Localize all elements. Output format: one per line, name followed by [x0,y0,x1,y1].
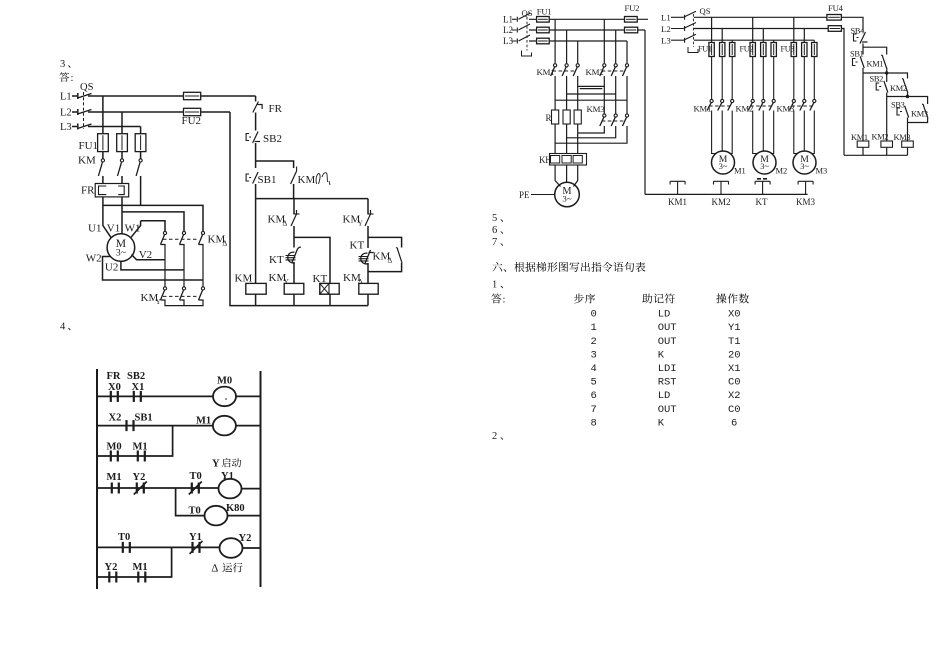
fuse FU4b (L2 return) [828,26,841,32]
wire L2 row [694,28,828,30]
svg-text:K80: K80 [226,503,245,514]
wire return line [841,29,844,156]
ladder right rail [260,371,262,587]
svg-text:∆: ∆ [283,219,288,228]
fuse FU2 (L1) [184,92,201,99]
wire KM coil branch [255,199,257,284]
label question 3 [60,59,70,70]
svg-text:KM3: KM3 [796,197,816,207]
node L2 [60,108,78,119]
label question 5-2 list [492,225,503,236]
node L3 [503,36,517,46]
wire rejoin + junction [863,68,887,141]
svg-text:LD: LD [658,309,671,321]
contactor KM-Y contacts [161,287,205,300]
svg-text:FU2: FU2 [625,3,640,13]
motor M2 [753,151,787,176]
svg-text:T0: T0 [118,532,130,543]
svg-text:FU3: FU3 [781,45,795,54]
svg-text:T0: T0 [190,471,202,482]
svg-text:M1: M1 [196,416,211,427]
fuse FU2 (L2) [182,108,202,127]
svg-text:6: 6 [731,417,737,429]
svg-text:∆: ∆ [212,563,219,575]
svg-text:3~: 3~ [760,162,769,171]
svg-text:L2: L2 [503,25,513,35]
svg-text:K: K [658,417,665,429]
svg-text:3~: 3~ [116,248,127,259]
svg-text:7: 7 [591,404,597,416]
wire W1 slant [131,221,141,238]
node V1 [107,223,120,235]
contact KM-delta seal (NO) [373,248,403,265]
node L2 [503,25,517,35]
svg-text:OUT: OUT [658,336,677,348]
svg-text:KM1: KM1 [867,60,884,69]
wire to motor M2 [753,111,774,154]
wire L3 row [88,126,141,128]
svg-text:LDI: LDI [658,363,677,375]
svg-text:KT: KT [350,240,365,252]
contact X2 (SB1) [109,413,153,432]
wire [293,199,295,248]
contact KM2 seal (NO) [890,79,908,93]
fuse FU2 (L1) [625,3,640,22]
svg-text:FU4: FU4 [828,3,844,13]
node V2 wire [132,249,166,261]
svg-text:2: 2 [492,431,497,442]
svg-text:Y: Y [156,297,162,306]
node L2 [661,24,685,34]
wire FU1 to KM [103,152,141,159]
rung 2 wire [97,425,213,427]
svg-text:SB1: SB1 [135,413,153,424]
svg-text:Y1: Y1 [189,532,202,543]
branch wire to T0 coil [176,488,205,516]
svg-text:X2: X2 [728,390,741,402]
switch QS [684,6,711,53]
fuse FU1 (3) [537,7,552,44]
heading section six [492,262,645,272]
node L3 [661,36,685,46]
svg-text:L1: L1 [60,92,72,103]
wire stage3 branch [908,97,928,105]
motor M 3~ (PE) [555,182,580,207]
svg-text:QS: QS [80,82,94,93]
wire KM2 outputs down [604,76,627,114]
svg-text:U2: U2 [105,262,118,274]
svg-text:Y2: Y2 [105,562,118,573]
svg-text:KM2: KM2 [586,67,604,77]
svg-text:M3: M3 [816,166,828,176]
svg-text:KM: KM [235,273,253,285]
svg-text:∆: ∆ [388,256,393,265]
wire SB4 to branch [863,44,887,55]
svg-text:5: 5 [591,377,597,389]
fuse FU1 group [698,43,735,57]
contactor KM3 contacts [587,104,629,126]
wire KM-Y shorting bar [161,300,204,306]
label Y qidong [212,458,241,469]
coil Y1 [219,471,242,498]
svg-text:3: 3 [60,59,65,70]
svg-text:SB1: SB1 [850,50,864,59]
fuse FU2 group [740,43,777,57]
wire L1 row [529,18,648,20]
motor M 3~ [107,234,135,262]
svg-text:M1: M1 [133,562,148,573]
wire stage3 join [908,118,928,142]
svg-text:U1: U1 [88,223,101,235]
svg-text:3: 3 [591,349,597,361]
fuse FU4 [827,3,844,20]
contact X0 (FR) [107,371,121,402]
wire L1 row [88,95,256,97]
svg-text:Y: Y [358,219,364,228]
contact M1 [133,442,148,462]
svg-text:3~: 3~ [719,162,728,171]
table row step 0 [591,309,741,321]
pushbutton SB2 (NC stop) [246,132,282,146]
rung 4 parallel branch wire [97,547,172,577]
svg-text:RST: RST [658,377,677,389]
svg-text:KM1: KM1 [668,197,687,207]
node L1 [661,13,685,23]
wire FR to SB2 [255,113,257,131]
node L3 [60,122,78,133]
wire L1 to control [255,96,257,102]
label delta yunxing [212,563,243,575]
wire phase drops to FU1 [103,96,141,134]
wire crossover bar 3 [555,99,627,101]
contact T0 [118,532,130,553]
terminal KM1 [668,181,687,207]
svg-text:FU1: FU1 [537,7,552,17]
svg-text:6: 6 [591,390,597,402]
svg-text:KT: KT [756,197,768,207]
table row step 3 [591,349,741,361]
svg-text:1: 1 [591,322,597,334]
svg-text:T0: T0 [189,506,201,517]
rung 1 wire to rail [236,395,261,397]
fuse FU2 (L2) [625,27,638,33]
time contact KT (NC delayed-open) [350,240,374,264]
svg-text:KM: KM [298,174,316,186]
wire right branch [368,199,402,248]
contactor KM2 contacts [586,64,629,77]
svg-text:OUT: OUT [658,404,677,416]
wire drops to KM2 [604,19,627,63]
svg-text:FR: FR [269,103,283,115]
svg-text:KM2: KM2 [890,84,907,93]
wire to KMY coil [293,262,295,283]
terminal KM2 [712,181,731,207]
wire L2 row [529,29,645,31]
svg-text:20: 20 [728,349,741,361]
fuse FU3 group [781,43,818,57]
svg-text:∆: ∆ [223,239,228,248]
svg-text:KM3: KM3 [777,104,795,114]
svg-text:KM2: KM2 [712,197,731,207]
label 2 [492,431,503,442]
wire L2 row [88,111,230,113]
svg-text:L3: L3 [503,36,513,46]
svg-text:Y2: Y2 [133,472,146,483]
node W1 [125,223,141,235]
svg-text:4: 4 [591,363,597,375]
wire U1-phase to KM-delta feed [103,205,203,231]
label KM-delta [208,234,228,248]
wire bottom control bus [645,193,808,195]
wire T0 coil to rail [228,515,261,517]
svg-text:4: 4 [60,322,66,333]
wire to motor M1 [712,111,733,154]
wire KM-delta to KM-Y columns [161,245,204,287]
contact KM-delta interlock (NC) [268,210,300,228]
coil KM-delta [343,272,378,294]
switch QS [519,8,533,56]
wire KM to FR [103,176,141,205]
coil M0 [213,376,236,407]
label 1 [492,280,503,291]
svg-text:C0: C0 [728,404,741,416]
wire FR to motor terminals U1 V1 [103,197,122,238]
wire 9 fuse drops [712,17,815,42]
terminal KM3 [796,181,816,207]
svg-text:X0: X0 [728,309,741,321]
svg-text:KM2: KM2 [872,133,889,142]
pushbutton SB2 (NO) [870,75,888,93]
svg-text::: : [503,295,506,306]
wire KM1 outputs down to R [555,76,578,110]
svg-text:5: 5 [492,213,497,224]
svg-text:M2: M2 [776,166,788,176]
svg-text:L2: L2 [661,24,671,34]
resistor R (3) [546,110,582,124]
rung 1 wire [97,395,213,397]
contactor KM main contacts [78,155,142,177]
svg-text:QS: QS [700,6,711,16]
wire to motor M3 [794,111,815,154]
wire bottom control bus [230,112,368,306]
contact KM3 seal (NO) [911,104,928,118]
wire KH to motor [555,165,578,187]
svg-text:W2: W2 [86,253,102,265]
node U2 wire [105,261,184,273]
svg-text:SB2: SB2 [870,75,884,84]
contactor KM1 contacts [537,64,580,77]
pushbutton SB3 (NO) [891,101,909,118]
table row step 2 [591,336,741,348]
label question 5 [492,213,503,224]
contact KM-Y interlock (NC) [343,210,374,228]
wire FU4 to SB4 [841,17,863,31]
fuse FU1 (3 cartridges) [79,134,146,152]
wire rejoin + junction [887,93,908,142]
svg-text:K: K [658,349,665,361]
rung 4 wire [97,546,220,548]
wire coils to bottom bus [844,148,908,156]
svg-text:C0: C0 [728,377,741,389]
coil KM [235,273,267,295]
coil KM-Y [269,272,304,294]
svg-text:SB2: SB2 [263,133,282,145]
svg-text:M0: M0 [107,442,122,453]
wire stage2 branch [887,73,908,79]
time contact KT (NO delayed-close) [269,247,301,266]
wire KT coil branch [294,237,330,283]
svg-text:KM3: KM3 [587,104,606,114]
wire SB2 to branch [256,143,294,168]
svg-text:FU2: FU2 [740,45,754,54]
pen mark annotation [316,173,330,185]
wire crossover bar 1 [578,86,605,88]
svg-text::: : [71,73,74,84]
contact KM1 seal (NO) [867,55,888,69]
wire L1 row [694,16,827,18]
table row step 7 [591,404,741,416]
coil M1 [196,416,236,436]
svg-text:KM: KM [78,155,96,167]
wire parallel join [368,263,402,283]
svg-text:X2: X2 [109,413,122,424]
pushbutton SB1 (NO start) [850,50,864,69]
rung 3 wire to rail [242,488,261,490]
svg-text:Y1: Y1 [728,322,741,334]
svg-text:PE: PE [519,190,530,200]
coil KM3 [894,133,914,147]
label answer [491,293,505,305]
node L1 [60,92,78,103]
switch QS [78,82,94,129]
rung 3 wire [97,487,219,489]
pushbutton SB1 (NO start) [246,172,276,186]
contact KM seal-in (NO) [291,167,316,187]
node L1 [503,15,517,25]
coil Y2 [220,533,252,558]
rung 4 wire to rail [243,547,261,549]
wire V1-phase to KM-delta feed [122,212,184,231]
contact X1 (SB2) [127,371,145,402]
label KM-Y [141,292,162,306]
svg-text:T1: T1 [728,336,741,348]
label 7 [492,237,503,248]
svg-text:SB1: SB1 [258,174,277,186]
svg-text:LD: LD [658,390,671,402]
svg-text:L1: L1 [503,15,513,25]
contact T0 (NC) [189,471,202,495]
table row step 5 [591,377,741,389]
thermal contact FR (NC) [253,102,283,116]
svg-text:FU1: FU1 [698,45,712,54]
coil T0 K80 [189,503,245,525]
contact M1 [133,562,148,583]
table row step 4 [591,363,741,375]
node U1 [88,223,101,235]
node PE [519,190,555,200]
svg-text:M0: M0 [217,376,232,387]
rung 2 wire to rail [236,425,261,427]
svg-text:SB4: SB4 [851,27,866,36]
wire drops to KM1 [555,19,578,63]
table row step 8 [591,417,738,429]
svg-text:V1: V1 [107,223,120,235]
terminal KT [755,179,770,207]
contact Y1 (NC) [189,532,203,554]
svg-text:M1: M1 [107,472,122,483]
wire fuses to KM contacts [712,57,815,100]
svg-text:FR: FR [81,185,95,197]
table header [574,293,749,303]
svg-text:3~: 3~ [562,194,571,204]
contactor KM1 contacts [694,99,734,113]
contact Y2 [105,562,118,583]
svg-text:L2: L2 [60,108,72,119]
wire L3 row [694,39,814,41]
wire R bottoms down [555,124,578,154]
wire rejoin to rail [256,184,368,199]
table row step 6 [591,390,741,402]
wire control feed from FU2 [644,30,646,194]
ladder left rail [96,369,98,589]
motor M3 [793,151,827,176]
coil KM2 [872,133,893,148]
motor M1 [712,151,746,176]
node W2 wire [86,253,203,281]
contactor KM-delta contacts [161,231,205,244]
svg-text:L1: L1 [661,13,671,23]
wire L3 row [529,40,627,42]
thermal relay FR heater [81,184,129,197]
svg-text:FU1: FU1 [79,140,99,152]
table row step 1 [591,322,741,334]
svg-text:L3: L3 [661,36,671,46]
coil KM1 [851,133,869,147]
svg-text:1: 1 [492,280,497,291]
coil KT (time relay) [313,273,340,294]
svg-text:M1: M1 [734,166,746,176]
svg-text:6: 6 [492,225,497,236]
wire W1-phase to KM-delta feed [141,221,165,231]
svg-text:OUT: OUT [658,322,677,334]
rung 2 parallel branch wire [97,426,173,456]
contactor KM3 contacts [777,99,816,113]
svg-text:3~: 3~ [800,162,809,171]
contact M1 [107,472,122,494]
svg-text:7: 7 [492,237,497,248]
label answer 答: [59,72,73,84]
svg-text:FU2: FU2 [182,115,202,127]
contactor KM2 contacts [736,99,776,113]
contact Y2 (NC) [133,472,147,495]
svg-text:W1: W1 [125,223,141,235]
svg-text:FR: FR [107,371,121,382]
contact M0 [107,442,122,462]
svg-text:KT: KT [269,254,284,266]
pushbutton SB4 (NC stop) [851,27,868,44]
svg-text:L3: L3 [60,122,72,133]
svg-text:R: R [546,113,552,123]
svg-text:0: 0 [591,309,597,321]
thermal relay KH [539,154,587,166]
svg-text:X1: X1 [728,363,741,375]
label question 4 [60,322,70,333]
svg-text:SB2: SB2 [127,371,145,382]
wire crossover bar 2 [567,93,616,95]
wire KM3 outputs to bars [555,126,627,143]
svg-text:Y: Y [212,459,220,470]
svg-text:2: 2 [591,336,597,348]
